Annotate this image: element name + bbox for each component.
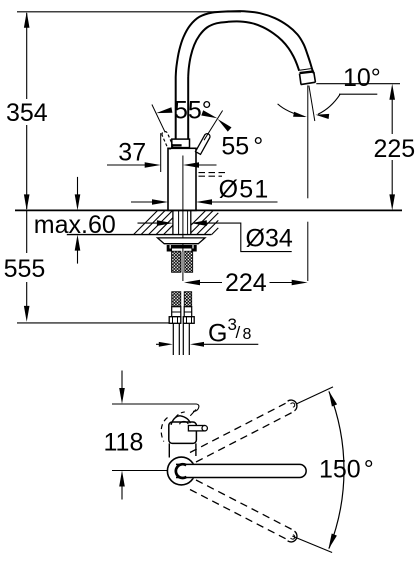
aerator face [301,82,316,84]
svg-text:/: / [236,323,241,342]
dimension 225 [391,97,393,134]
top reference line (354 top) [17,11,241,13]
aerator cap right edge [314,72,316,82]
arrow up 354 [24,12,30,28]
svg-text:118: 118 [104,429,144,457]
spout bar top view [176,464,306,477]
swing arc 150 [329,392,344,549]
collar dark mark [172,144,181,146]
right lever [196,134,210,155]
37 left arrow [107,164,146,166]
arrow down 354 [24,194,30,210]
spout tube left vertical [175,77,177,139]
pivot inner ring thick [176,464,187,478]
arrow to right lever (from upper 55) [201,110,217,118]
hose tubes [172,323,174,355]
body top view rect [169,422,197,443]
upper capsule cap [288,400,297,411]
tilted 10deg line [309,86,315,121]
dashed swing arc of lever [161,418,167,442]
118 bottom arrow [121,484,123,500]
svg-text:G: G [208,320,227,348]
10deg leader arc left [278,104,305,117]
flange trapezoid [158,238,206,244]
dashed spout upper position [190,402,294,462]
aerator seam thick [300,71,314,73]
shank edges [178,210,180,234]
arrow to left lever [156,107,172,113]
37 right arrow (points left at centre line) [197,164,217,166]
d51 left arrow [131,201,155,203]
pivot outer circle [167,457,195,485]
deck hatching left [134,210,173,234]
right lever leader line [204,111,223,141]
dimension 354 vertical line [26,13,28,99]
grey shank between studs [181,252,185,272]
aerator cap left edge [300,74,302,85]
G38 arrows [156,343,160,345]
left lever leader line [152,105,165,133]
10deg leader arc right [318,94,340,114]
spout tube right vertical [187,77,189,139]
svg-text:354: 354 [6,99,48,127]
d51 right arrow + underline [210,201,278,203]
svg-text:150°: 150° [319,456,374,484]
hose nuts [169,317,181,324]
lower extension line [292,536,332,552]
body centre line [182,156,184,282]
svg-text:8: 8 [243,326,252,343]
max60 top arrow [77,177,79,195]
left lever (dashed) [162,131,173,148]
svg-text:Ø34: Ø34 [246,225,293,253]
mounting nut black band [167,245,197,249]
deck bottom line [67,234,212,236]
svg-text:max.60: max.60 [34,211,116,239]
svg-text:225: 225 [374,135,416,163]
lever ball [180,422,188,425]
threaded studs [172,251,181,272]
hole edge right [190,210,192,234]
555 line [26,211,28,253]
max60 bottom arrow [77,250,79,264]
spout inner curve [188,21,299,77]
arc arrowheads [329,391,338,407]
svg-text:224: 224 [225,269,267,297]
555 bottom reference line [17,322,169,324]
collar [172,139,190,148]
dashed spout lower position [190,480,294,540]
118 top extension line + hook [112,403,197,405]
upper extension line [297,387,333,404]
118 top arrow [121,371,123,392]
225 top reference line [316,83,400,85]
deck top line [15,209,402,211]
svg-text:55°: 55° [174,97,212,125]
svg-text:555: 555 [4,255,46,283]
hole edge left [172,210,174,234]
d34 arrows [138,222,160,224]
deck hatching right [191,210,219,234]
118 bottom extension line [112,470,168,472]
37 extension line [160,133,162,172]
dashed lever ghost above dome [176,412,185,417]
body [168,148,196,210]
lever cylinder [188,426,204,431]
stud top stubs [167,249,172,252]
lower hose knurled tops [172,292,181,307]
aerator seam thin [299,69,311,71]
svg-text:55°: 55° [221,133,263,161]
hidden lever dashes [199,172,228,174]
vertical line from spout tip [307,85,309,198]
svg-text:10°: 10° [343,64,381,92]
spout outer curve [176,11,314,77]
arrow from lower 55 [218,119,232,132]
lever dome [171,416,190,425]
hose smooth section [172,307,181,317]
svg-text:37: 37 [118,139,146,167]
lower capsule cap [288,531,297,542]
svg-text:Ø51: Ø51 [219,176,270,204]
